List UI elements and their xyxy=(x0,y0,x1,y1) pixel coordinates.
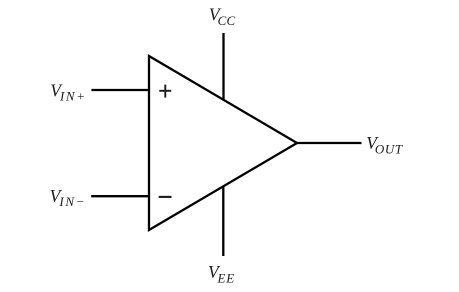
svg-text:VIN−: VIN− xyxy=(50,186,86,209)
minus symbol (inverting pin marker) xyxy=(159,196,172,198)
wire VEE supply stub xyxy=(222,186,224,256)
svg-text:VIN+: VIN+ xyxy=(50,80,86,103)
plus symbol (non-inverting pin marker) xyxy=(159,85,171,98)
wire non-inverting input xyxy=(91,89,149,91)
wire VCC supply stub xyxy=(222,33,224,101)
op-amp U1 triangle body xyxy=(149,56,297,230)
wire inverting input xyxy=(91,195,149,197)
svg-text:VOUT: VOUT xyxy=(366,133,403,156)
svg-text:VEE: VEE xyxy=(208,262,235,286)
svg-text:VCC: VCC xyxy=(209,4,236,28)
wire output xyxy=(297,142,362,144)
